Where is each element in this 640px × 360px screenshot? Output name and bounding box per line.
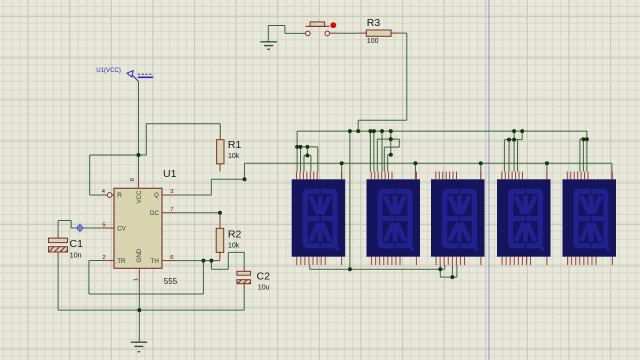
- sheet boundary line: [488, 0, 490, 360]
- pin stub R1 bottom unconnected: [219, 164, 221, 171]
- pin stub button right: [330, 32, 337, 34]
- wire button to R3: [337, 32, 358, 34]
- pin 4 stub U1: [112, 194, 114, 196]
- svg-text:100: 100: [367, 38, 379, 45]
- svg-text:Q: Q: [154, 192, 159, 199]
- svg-text:5: 5: [102, 222, 105, 228]
- node VCC junction: [137, 153, 141, 157]
- pin stub R3 right: [391, 32, 399, 34]
- node d1 d: [305, 154, 309, 158]
- node bus1 x358: [356, 129, 360, 133]
- wire top ground to button: [268, 26, 305, 42]
- node bus1 x514: [512, 129, 516, 133]
- red state indicator dot: [330, 22, 336, 28]
- pin 4 inversion bubble: [107, 193, 112, 198]
- node y163 d1: [340, 161, 344, 165]
- svg-text:TH: TH: [151, 258, 159, 265]
- node d4 b: [512, 138, 516, 142]
- pin stub display3 right top: [480, 172, 482, 180]
- node TH junction B: [209, 259, 213, 263]
- svg-text:R1: R1: [228, 139, 242, 151]
- pin 5 stub U1: [102, 227, 114, 229]
- svg-text:VCC: VCC: [136, 190, 143, 204]
- svg-text:6: 6: [170, 255, 173, 261]
- svg-text:8: 8: [130, 178, 136, 181]
- pin stub display5 right top: [611, 172, 613, 180]
- display DS2: [367, 172, 421, 266]
- pin stub C1 bottom: [57, 252, 59, 256]
- wire bus1 horizontal: [297, 131, 587, 171]
- node d4 a: [507, 138, 511, 142]
- node TH junction A: [201, 259, 205, 263]
- svg-text:R3: R3: [367, 17, 381, 29]
- ground bottom (pin1): [131, 342, 148, 352]
- wire display1 top cluster: [297, 147, 318, 172]
- node bus1 x382: [380, 129, 384, 133]
- node bus1 x522: [520, 129, 524, 133]
- wire DC pin7 to R2: [177, 212, 220, 214]
- resistor R2: [216, 228, 224, 252]
- pin stub R1 top: [219, 133, 221, 140]
- pin stub display1 right top: [341, 172, 343, 180]
- pin 8 stub U1: [138, 177, 140, 189]
- node DC-R2 junction: [218, 211, 222, 215]
- op-amp U1 555 timer body: [114, 188, 162, 268]
- wire display bottom bus: [310, 265, 457, 277]
- svg-text:3: 3: [170, 189, 173, 195]
- capacitor C1: [49, 238, 68, 252]
- wire pin1 to ground: [138, 280, 140, 342]
- display DS3: [431, 172, 485, 266]
- node y163 d2: [413, 161, 417, 165]
- node d1 a: [295, 145, 299, 149]
- node bus1 x350: [348, 129, 352, 133]
- wire Q pin3: [177, 179, 245, 195]
- wire CV to C1: [58, 221, 102, 235]
- resistor R1: [217, 140, 224, 164]
- wire display5 top cluster: [580, 139, 587, 171]
- wire TH to C2 staircase: [211, 252, 244, 269]
- push button: [306, 22, 330, 36]
- pin 2 stub U1: [102, 260, 114, 262]
- node bottom x440: [438, 267, 442, 271]
- node bottom x452: [450, 275, 454, 279]
- pin 6 stub U1: [162, 260, 177, 262]
- node d5 a: [581, 137, 585, 141]
- svg-text:R: R: [117, 192, 122, 199]
- node bus1 x391: [389, 129, 393, 133]
- node bus1 x374: [372, 129, 376, 133]
- node bottom x350: [348, 267, 352, 271]
- svg-text:555: 555: [164, 277, 178, 286]
- wire display2 top cluster: [370, 131, 399, 171]
- wire TR loop: [89, 261, 203, 295]
- power terminal U1(VCC): [127, 71, 153, 82]
- resistor R3: [366, 30, 391, 36]
- node d5 b: [585, 137, 589, 141]
- pin stub R2 top: [219, 213, 221, 229]
- pin stub R3 left: [358, 32, 366, 34]
- svg-text:GND: GND: [136, 248, 143, 262]
- node Q corner junction: [243, 177, 247, 181]
- svg-text:10k: 10k: [228, 243, 240, 250]
- pin 3 stub U1: [162, 194, 177, 196]
- svg-text:R2: R2: [228, 229, 242, 241]
- wire display4 top cluster: [504, 131, 522, 171]
- node y163 d3: [479, 161, 483, 165]
- pin stub C2 top: [243, 267, 245, 271]
- wire R3 to bus: [358, 33, 407, 131]
- svg-text:U1(VCC): U1(VCC): [96, 67, 121, 74]
- pin stub C1 top: [57, 235, 59, 239]
- node d2 b: [389, 153, 393, 157]
- node ground rail junction: [137, 308, 141, 312]
- pin stub display4 right top: [546, 172, 548, 180]
- wire TH pin6: [177, 260, 220, 262]
- node d1 c: [305, 145, 309, 149]
- pin stub R2 bottom: [219, 252, 221, 260]
- wire C1 bottom rail: [58, 256, 244, 311]
- svg-text:U1: U1: [163, 168, 177, 180]
- svg-text:CV: CV: [117, 226, 126, 233]
- svg-text:C1: C1: [70, 238, 84, 250]
- svg-text:10k: 10k: [228, 153, 240, 160]
- svg-text:2: 2: [102, 255, 105, 261]
- pin 1 stub U1: [138, 268, 140, 280]
- node d1 b: [299, 145, 303, 149]
- ground top (near button): [260, 42, 277, 50]
- wire VCC terminal down to pin8: [90, 82, 221, 196]
- svg-text:DC: DC: [150, 210, 159, 217]
- svg-text:10u: 10u: [258, 284, 270, 291]
- wire vertical x350 bus to bottom: [349, 131, 351, 269]
- display DS4: [497, 172, 551, 266]
- svg-text:1: 1: [134, 278, 140, 281]
- wire Q output long line y163: [245, 163, 612, 179]
- capacitor C2: [237, 271, 251, 283]
- pin 7 stub U1: [162, 212, 177, 214]
- pin stub C2 bottom: [243, 284, 245, 288]
- svg-text:TR: TR: [117, 258, 126, 265]
- node bus1 x370: [368, 129, 372, 133]
- node d2 a: [389, 137, 393, 141]
- svg-text:10n: 10n: [70, 252, 82, 259]
- display DS1: [292, 172, 346, 266]
- pin stub display2 right top: [414, 172, 416, 180]
- svg-text:C2: C2: [257, 270, 271, 282]
- CV node crosshair marker: [76, 224, 85, 233]
- node y163 d4: [545, 161, 549, 165]
- display DS5: [563, 172, 617, 266]
- svg-text:7: 7: [170, 207, 173, 213]
